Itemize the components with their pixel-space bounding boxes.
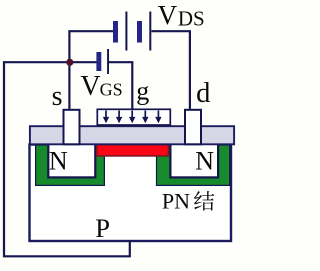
junction node	[66, 59, 73, 66]
svg-text:V: V	[80, 71, 100, 102]
label 结 (junction) glyph path	[194, 191, 214, 211]
wire: VDS left to source	[69, 31, 113, 109]
svg-text:GS: GS	[100, 80, 123, 100]
svg-text:DS: DS	[178, 6, 205, 30]
wire: VGS left + body loop	[4, 62, 130, 256]
battery VDS plate thin 2	[149, 12, 151, 51]
insulating layer (gray bar)	[30, 126, 234, 144]
field arrows in gate box	[103, 111, 162, 124]
wire: VGS right to gate	[109, 62, 132, 109]
svg-text:N: N	[49, 146, 68, 175]
battery VDS plate thick 2	[137, 21, 142, 43]
channel (red strip)	[97, 145, 169, 156]
svg-text:V: V	[158, 0, 178, 30]
drain contact d	[185, 110, 201, 145]
N region left (PN junction green)	[36, 145, 105, 185]
svg-text:N: N	[195, 146, 214, 175]
svg-text:g: g	[136, 76, 149, 105]
svg-text:s: s	[52, 81, 63, 112]
N region left interior	[48, 144, 95, 178]
svg-text:d: d	[196, 78, 210, 109]
battery VDS plate thin 1	[125, 12, 127, 51]
N region right interior	[170, 144, 218, 178]
svg-text:P: P	[95, 213, 110, 243]
svg-text:PN: PN	[162, 188, 190, 213]
P substrate box	[30, 145, 232, 242]
battery VDS plate thick 1	[113, 21, 118, 43]
N region right (PN junction green)	[157, 145, 230, 185]
gate electrode box g	[97, 109, 170, 125]
wire: VDS right to drain	[152, 31, 190, 109]
source contact s	[64, 110, 80, 145]
battery VGS plate thin	[107, 49, 109, 74]
battery VGS plate thick	[96, 52, 101, 71]
